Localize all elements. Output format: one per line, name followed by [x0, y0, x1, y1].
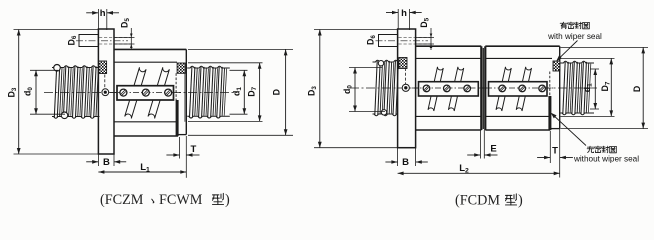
svg-text:with wiper seal: with wiper seal — [547, 32, 602, 41]
centerline right view — [350, 87, 597, 89]
oil passage hidden line — [104, 75, 106, 89]
band centerline — [110, 92, 181, 94]
dim E — [479, 130, 481, 159]
dim D3 — [14, 29, 99, 31]
seal recess nut B — [549, 72, 551, 97]
band centerline A — [412, 87, 484, 89]
screw thread (right segment, FCDM) — [561, 61, 595, 114]
nut A outline — [416, 45, 482, 47]
dim L2 — [398, 172, 560, 174]
return tube slot 2 — [148, 67, 169, 118]
text without wiper seal — [587, 146, 594, 152]
dim h — [97, 9, 99, 29]
spacer junction — [480, 46, 482, 130]
dim D6 FCDM — [379, 35, 398, 47]
stud circle 1 — [120, 89, 127, 96]
leader without wiper seal — [552, 114, 587, 146]
centerline left view — [44, 92, 237, 94]
bore lines nut B — [485, 57, 552, 59]
dim L1 — [98, 171, 186, 173]
seal recess step — [175, 73, 177, 100]
svg-text:): ) — [518, 193, 523, 209]
svg-text:D: D — [271, 89, 281, 95]
oil circle FCDM — [402, 84, 409, 91]
ball screw shaft thread (right segment) — [187, 66, 230, 118]
svg-text:FCWM: FCWM — [159, 192, 203, 208]
text with wiper seal — [560, 22, 567, 29]
studs nut B — [499, 85, 506, 92]
slots nut B — [496, 67, 511, 111]
band centerline B — [486, 87, 553, 89]
flange plate FCDM — [398, 29, 416, 148]
oil hole hidden lines — [99, 37, 131, 39]
wiper seal end cap FCDM — [553, 61, 560, 71]
dim D5 — [114, 37, 135, 39]
oil passage FCDM — [405, 68, 407, 84]
dim d0 FCDM — [349, 67, 382, 69]
dim h FCDM — [397, 9, 399, 29]
dim D7 — [188, 62, 263, 64]
wiper seal flange FCDM — [399, 58, 407, 69]
dim B — [97, 154, 99, 166]
svg-text:h: h — [401, 8, 407, 19]
leader with wiper seal — [557, 41, 577, 61]
dim d1 — [230, 69, 248, 71]
svg-text:D: D — [632, 86, 642, 92]
nut B outline — [485, 45, 559, 47]
dim B FCDM — [397, 148, 399, 166]
studs nut A — [423, 85, 430, 92]
dim T FCDM — [549, 131, 551, 163]
stud circle 2 — [142, 89, 149, 96]
stud circle 3 — [165, 89, 172, 96]
svg-text:T: T — [552, 145, 558, 156]
flange plate — [98, 29, 114, 154]
svg-text:B: B — [402, 157, 409, 168]
ball screw shaft thread (left segment) — [52, 66, 100, 118]
screw thread (left segment, FCDM) — [373, 60, 399, 115]
nut body outline — [114, 48, 186, 50]
dim D3 FCDM — [314, 29, 398, 31]
svg-text:T: T — [190, 144, 196, 155]
bore lines nut A — [416, 57, 482, 59]
oil hole circle — [102, 89, 109, 96]
slots nut A — [428, 67, 443, 111]
ball bottom right view — [381, 110, 386, 115]
dim d1 FCDM — [590, 68, 599, 70]
dim d0 — [30, 69, 58, 71]
band nut B — [489, 82, 548, 96]
wiper seal in flange (top) — [99, 61, 107, 74]
svg-text:(FCZM: (FCZM — [100, 192, 144, 208]
ball bottom — [61, 112, 68, 119]
svg-text:B: B — [103, 157, 110, 168]
nut bore lines — [114, 61, 177, 63]
bolt band — [117, 86, 174, 100]
oil hidden lines FCDM — [399, 37, 431, 39]
dim T — [179, 137, 181, 159]
band nut A — [419, 82, 479, 96]
dim D7 FCDM — [561, 57, 615, 59]
dim D — [188, 48, 293, 50]
dim D6 oil fitting — [79, 35, 98, 47]
svg-text:E: E — [490, 144, 496, 155]
svg-text:h: h — [100, 8, 106, 19]
wiper seal in end cap (top) — [177, 63, 185, 73]
ball top right view — [378, 61, 383, 66]
svg-text:without wiper seal: without wiper seal — [573, 155, 639, 164]
ball top — [54, 65, 61, 72]
dim D5 FCDM — [416, 37, 434, 39]
svg-text:): ) — [225, 192, 230, 208]
return tube slot 1 — [125, 67, 146, 118]
svg-text:(FCDM: (FCDM — [455, 193, 500, 209]
dim D FCDM — [561, 46, 649, 48]
